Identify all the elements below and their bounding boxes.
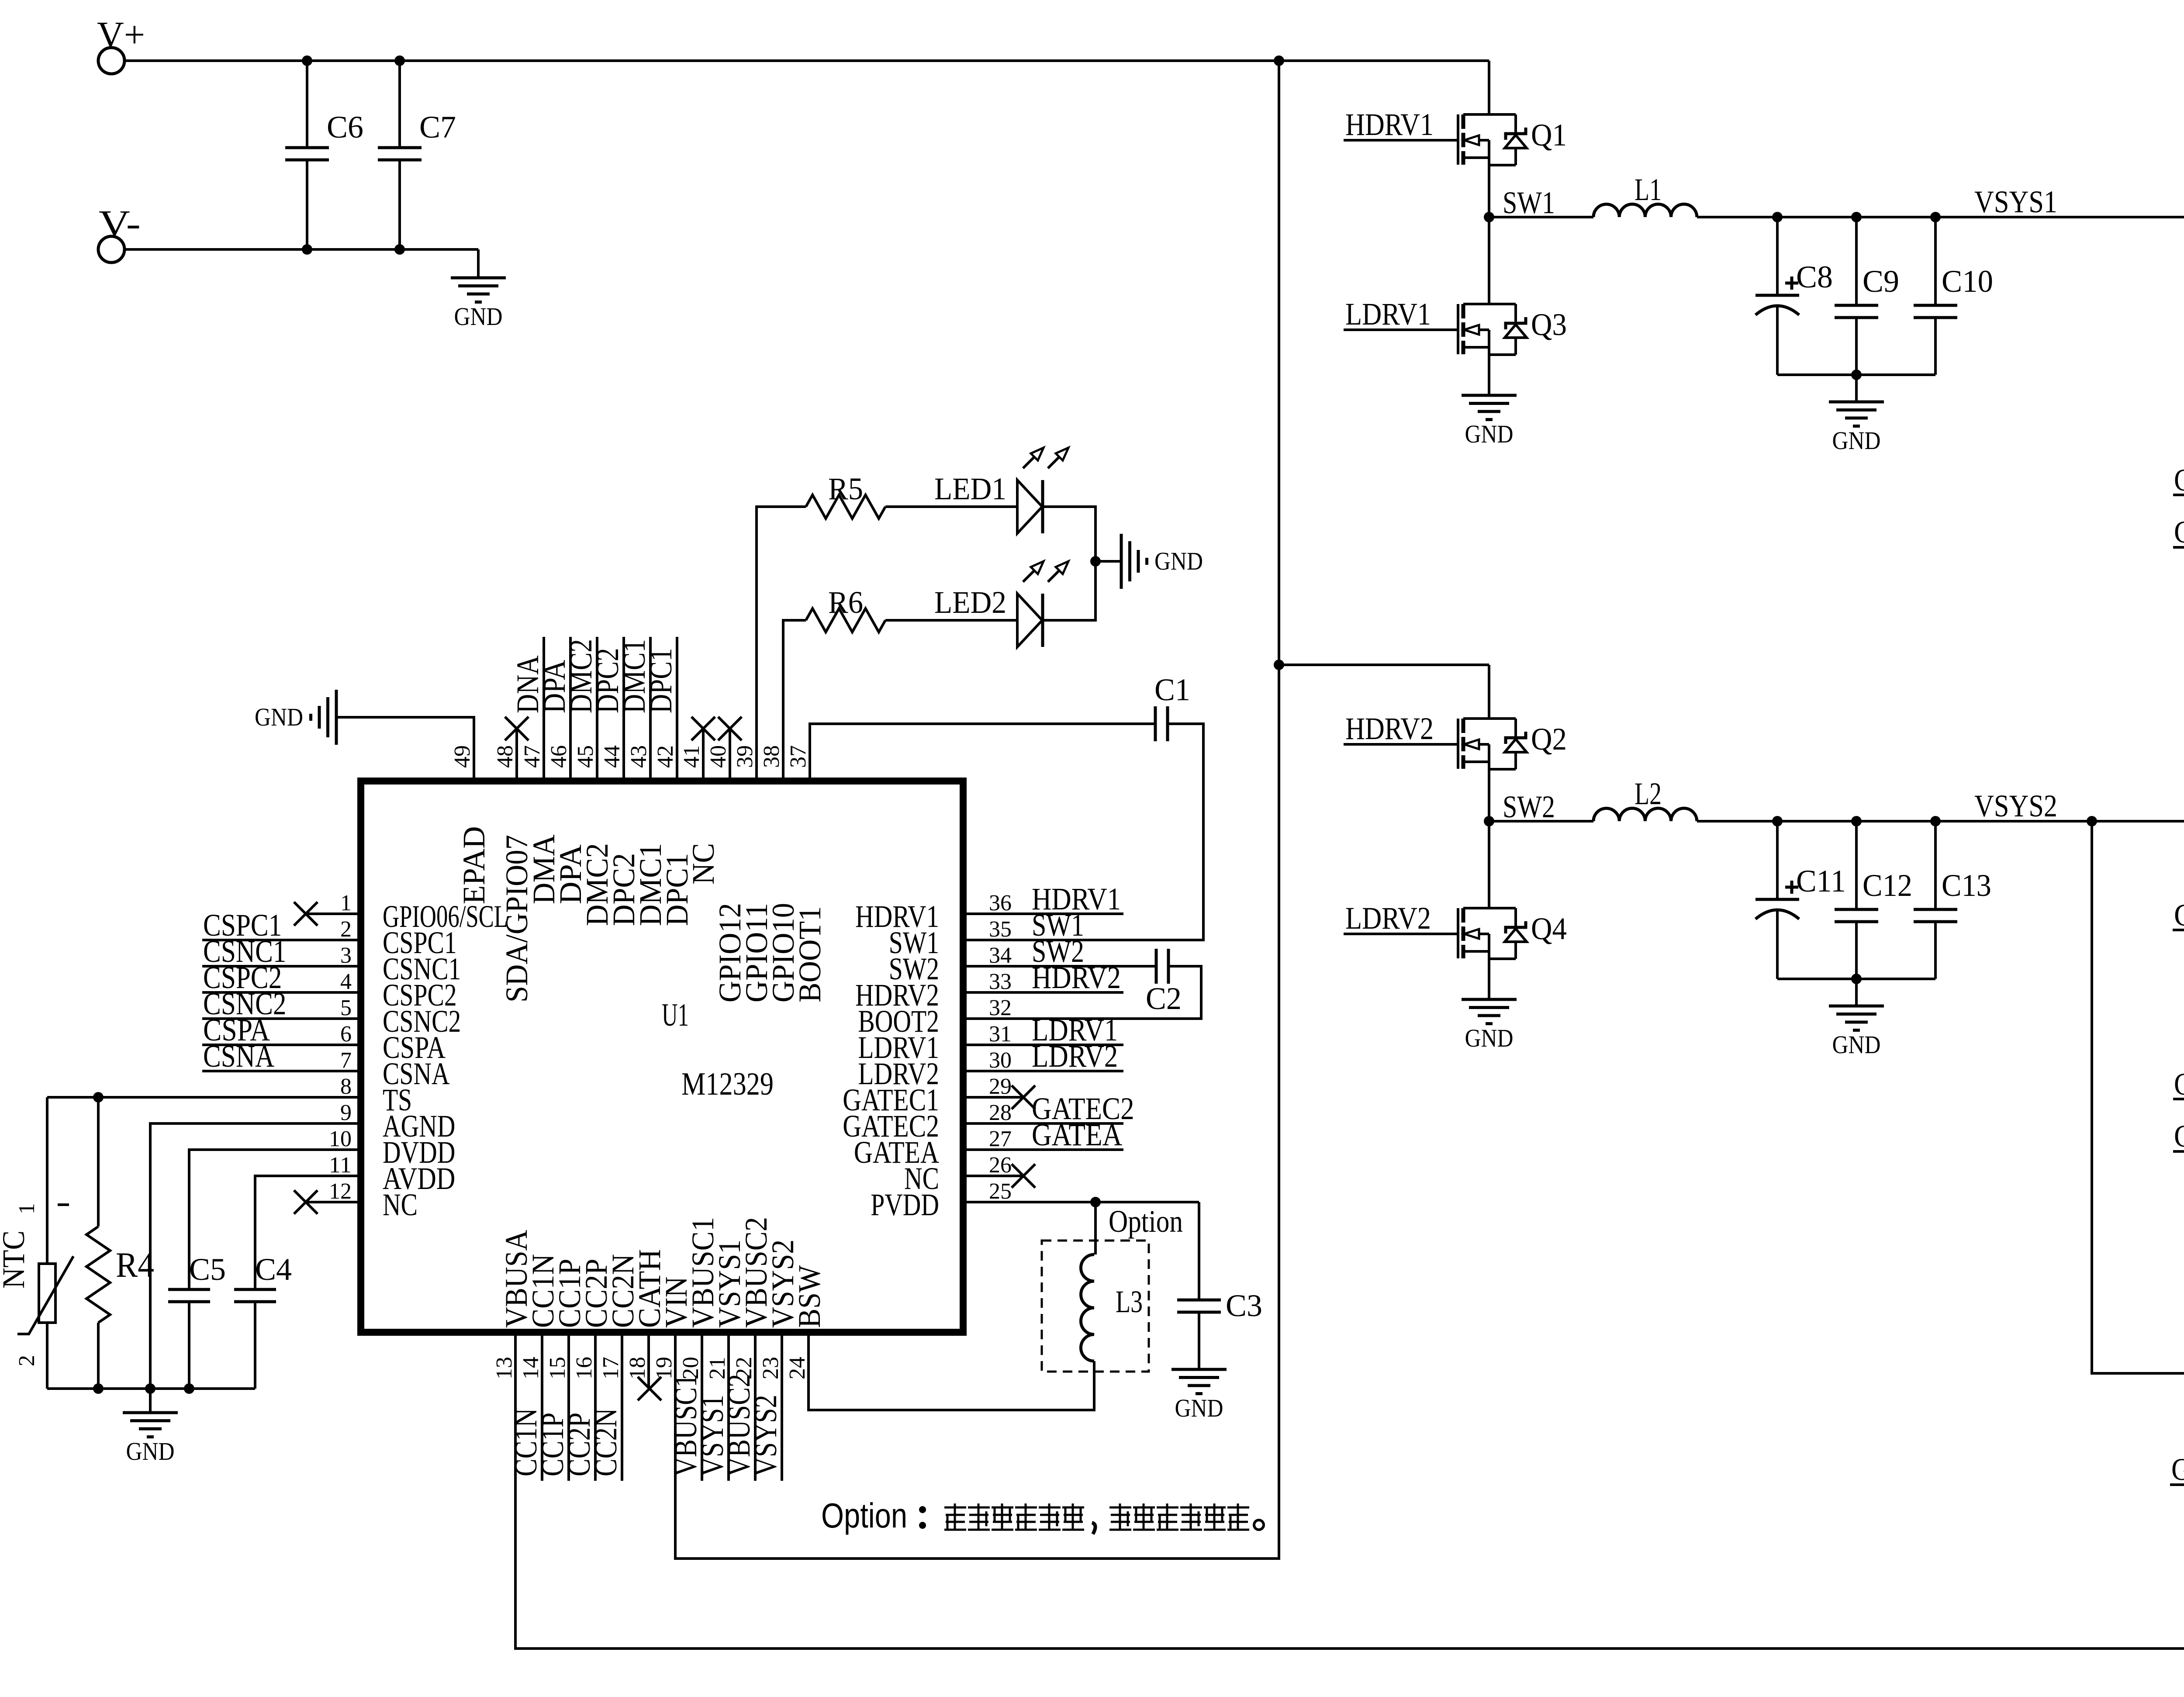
capacitor C12 <box>1855 821 1858 909</box>
svg-text:C4: C4 <box>255 1252 292 1287</box>
svg-text:38: 38 <box>759 745 784 768</box>
net label CSPC1 <box>202 939 361 941</box>
capacitor C5 <box>189 1150 361 1289</box>
wire pin29 stub <box>963 1096 1022 1099</box>
option dashed box <box>1042 1241 1149 1372</box>
svg-text:25: 25 <box>989 1179 1012 1204</box>
svg-text:C1: C1 <box>1154 672 1190 707</box>
wire V+ rail <box>124 59 1279 62</box>
junction <box>394 55 405 66</box>
svg-text:C5: C5 <box>189 1252 226 1287</box>
svg-text:49: 49 <box>450 745 475 768</box>
terminal V- <box>98 236 124 263</box>
ground <box>149 1389 152 1413</box>
svg-text:C9: C9 <box>1863 264 1899 299</box>
svg-text:4: 4 <box>340 969 352 994</box>
LED LED2 <box>1017 594 1042 647</box>
svg-text:GND: GND <box>126 1437 175 1465</box>
svg-text:6: 6 <box>340 1022 352 1047</box>
ground <box>1462 999 1517 1024</box>
svg-text:EPAD: EPAD <box>456 826 491 904</box>
svg-text:VSYS2: VSYS2 <box>1974 788 2057 823</box>
no-connect pin 18 <box>638 1377 661 1400</box>
transistor Q1 <box>1457 114 1459 165</box>
svg-text:CSPC2: CSPC2 <box>2174 1119 2184 1154</box>
svg-text:2: 2 <box>340 917 352 942</box>
svg-text:U1: U1 <box>662 997 689 1033</box>
net label VBUSC1 <box>701 1332 703 1481</box>
svg-text:BOOT1: BOOT1 <box>792 906 827 1002</box>
svg-text:41: 41 <box>679 745 704 768</box>
svg-text:28: 28 <box>989 1100 1012 1125</box>
resistor R6 <box>783 620 806 781</box>
resistor R5 <box>757 507 806 781</box>
svg-text:37: 37 <box>786 745 811 768</box>
net label VBUSC2 <box>754 1332 757 1481</box>
junction <box>1851 212 1862 222</box>
svg-text:17: 17 <box>598 1357 623 1379</box>
svg-text:42: 42 <box>653 745 678 768</box>
net label HDRV2 <box>963 991 1123 994</box>
net label SW2 <box>963 965 1156 968</box>
op-amp U1 IC body M12329 <box>361 781 963 1332</box>
svg-text:LDRV2: LDRV2 <box>1032 1039 1118 1074</box>
svg-text:Option: Option <box>821 1496 907 1535</box>
wire pin12 stub <box>307 1201 361 1203</box>
svg-text:L1: L1 <box>1635 172 1662 207</box>
svg-text:32: 32 <box>989 995 1012 1020</box>
svg-text:47: 47 <box>520 745 545 768</box>
svg-text:CSPC1: CSPC1 <box>2174 515 2184 550</box>
svg-text:5: 5 <box>340 995 352 1020</box>
capacitor C13 <box>1934 821 1937 909</box>
transistor Q4 <box>1457 908 1459 958</box>
svg-text:LDRV1: LDRV1 <box>1345 297 1431 332</box>
net label GATEA <box>963 1148 1123 1151</box>
net label CSPC2 <box>202 991 361 994</box>
transistor Q3 <box>1457 304 1459 354</box>
svg-text:HDRV1: HDRV1 <box>1345 107 1434 142</box>
node SW2 <box>1484 816 1494 826</box>
junction <box>394 244 405 255</box>
svg-text:9: 9 <box>340 1100 352 1125</box>
net label VSYS1 <box>727 1332 730 1481</box>
svg-text:36: 36 <box>989 891 1012 916</box>
no-connect pin 12 <box>294 1190 318 1214</box>
svg-text:44: 44 <box>600 745 625 768</box>
svg-text:NC: NC <box>686 843 721 885</box>
svg-text:15: 15 <box>545 1357 570 1379</box>
svg-text:26: 26 <box>989 1153 1012 1178</box>
transistor Q2 <box>1457 719 1459 769</box>
ground <box>311 690 337 745</box>
junction <box>1851 816 1862 826</box>
wire SW1 to L1 <box>1489 216 1593 218</box>
svg-text:VSYS1: VSYS1 <box>1974 184 2057 219</box>
ground <box>477 249 480 278</box>
wire VSYS1 rail <box>1697 216 2184 218</box>
svg-text:LED2: LED2 <box>934 585 1006 620</box>
svg-text:11: 11 <box>329 1153 352 1178</box>
no-connect pin 41 <box>691 717 715 740</box>
net label LDRV1 <box>1344 328 1458 331</box>
ground <box>1855 375 1858 402</box>
wire pin48 stub <box>515 729 518 781</box>
svg-text:GND: GND <box>1465 420 1514 448</box>
svg-text:CSNC2: CSNC2 <box>2174 1067 2184 1102</box>
net label HDRV1 <box>963 912 1123 915</box>
net label CSNC2 <box>2173 1019 2184 1099</box>
no-connect pin 26 <box>1012 1164 1035 1188</box>
svg-text:1: 1 <box>14 1203 39 1214</box>
net label CSNC1 <box>202 965 361 968</box>
svg-text:C7: C7 <box>419 110 456 145</box>
net label GATEC2 <box>963 1122 1123 1125</box>
capacitor C11 <box>1776 821 1779 899</box>
svg-text:29: 29 <box>989 1074 1012 1099</box>
svg-text:1: 1 <box>340 891 352 916</box>
svg-text:R6: R6 <box>828 585 863 620</box>
svg-text:23: 23 <box>758 1357 783 1379</box>
svg-text:CSNA: CSNA <box>203 1039 274 1074</box>
inductor L3 <box>1081 1255 1094 1361</box>
capacitor C3 <box>1198 1202 1200 1300</box>
LED LED1 <box>1017 480 1042 533</box>
svg-text:GND: GND <box>1465 1024 1514 1052</box>
net label SW1 <box>963 939 1203 941</box>
svg-text:DPC1: DPC1 <box>643 648 678 713</box>
wire V- rail <box>124 248 478 251</box>
junction <box>302 244 312 255</box>
svg-text:C8: C8 <box>1796 259 1833 294</box>
junction <box>1090 1197 1101 1207</box>
svg-text:C3: C3 <box>1226 1288 1262 1323</box>
svg-text:PVDD: PVDD <box>871 1187 939 1222</box>
svg-text:Q1: Q1 <box>1531 118 1567 152</box>
thermistor NTC <box>46 1097 48 1264</box>
svg-text:48: 48 <box>493 745 518 768</box>
svg-text:L2: L2 <box>1635 776 1662 811</box>
svg-text:14: 14 <box>518 1357 543 1379</box>
svg-text:HDRV2: HDRV2 <box>1345 711 1434 746</box>
svg-text:SW1: SW1 <box>1503 185 1555 220</box>
wire pin26 stub <box>963 1175 1022 1177</box>
svg-text:C11: C11 <box>1796 864 1846 899</box>
svg-text:BSW: BSW <box>792 1265 827 1328</box>
svg-text:CSNC1: CSNC1 <box>2174 463 2184 498</box>
svg-text:C6: C6 <box>327 110 363 145</box>
net label CSPA <box>202 1044 361 1046</box>
svg-text:13: 13 <box>492 1357 517 1379</box>
svg-text:GND: GND <box>1832 426 1881 455</box>
junction <box>1930 816 1941 826</box>
junction <box>93 1092 104 1103</box>
junction <box>1851 370 1862 380</box>
wire analog bottom rail <box>47 1387 255 1390</box>
svg-text:C10: C10 <box>1942 264 1993 299</box>
inductor L1 <box>1593 204 1697 217</box>
svg-text:Option: Option <box>1109 1204 1183 1239</box>
wire Q1 drain rail <box>1279 59 1489 62</box>
no-connect pin 29 <box>1012 1085 1035 1109</box>
net label DMC2 <box>596 637 598 781</box>
svg-text:8: 8 <box>340 1074 352 1099</box>
svg-text:24: 24 <box>785 1357 810 1379</box>
capacitor C2 <box>963 965 1156 968</box>
svg-text:31: 31 <box>989 1022 1012 1047</box>
no-connect pin 1 <box>294 902 318 926</box>
svg-text:C13: C13 <box>1942 868 1991 903</box>
capacitor C4 <box>255 1176 361 1289</box>
svg-text:V+: V+ <box>97 14 145 55</box>
svg-text:2: 2 <box>14 1355 39 1366</box>
capacitor C8 <box>1776 217 1779 295</box>
junction <box>1772 816 1783 826</box>
junction <box>1851 974 1862 984</box>
inductor L2 <box>1593 808 1697 821</box>
capacitor C7 <box>398 61 401 148</box>
ground <box>1095 560 1121 563</box>
svg-text:Q3: Q3 <box>1531 307 1567 342</box>
svg-text:LED1: LED1 <box>934 471 1006 506</box>
wire LED2 cathode <box>1043 561 1095 620</box>
svg-text:V-: V- <box>99 202 141 244</box>
wire PVDD to option <box>1094 1202 1097 1255</box>
net label DPC1 <box>676 637 678 781</box>
svg-text:43: 43 <box>626 745 651 768</box>
wire AGND net <box>150 1123 361 1389</box>
junction <box>1090 556 1101 567</box>
svg-text:33: 33 <box>989 969 1012 994</box>
wire pin25 PVDD <box>963 1201 1199 1203</box>
svg-text:30: 30 <box>989 1048 1012 1073</box>
wire Q2 drain rail <box>1279 664 1489 666</box>
net label CC1P <box>567 1332 570 1481</box>
wire capacitor bottom rail 2 <box>1777 978 1935 980</box>
wire VSYS2 rail <box>1697 820 2184 823</box>
svg-text:CC2N: CC2N <box>588 1408 623 1476</box>
no-connect pin 48 <box>505 717 529 740</box>
wire pin40 stub <box>729 729 731 781</box>
svg-text:45: 45 <box>573 745 598 768</box>
net label GATEC2 <box>2173 929 2184 931</box>
net label DPC2 <box>622 637 625 781</box>
ground <box>1171 1369 1227 1394</box>
svg-text:VSYS2: VSYS2 <box>748 1395 783 1476</box>
wire pin41 stub <box>702 729 705 781</box>
net label CSNA <box>202 1070 361 1072</box>
net label CC1N <box>541 1332 543 1481</box>
svg-text:39: 39 <box>733 745 757 768</box>
svg-text:C12: C12 <box>1863 868 1912 903</box>
junction <box>145 1383 156 1394</box>
net label LDRV2 <box>963 1070 1123 1072</box>
svg-text:7: 7 <box>340 1048 352 1073</box>
terminal V+ <box>98 48 124 74</box>
net label CSPC1 <box>2173 415 2184 547</box>
svg-text:3: 3 <box>340 943 352 968</box>
node SW1 <box>1484 212 1494 222</box>
svg-text:35: 35 <box>989 917 1012 942</box>
svg-text:GATEA: GATEA <box>1032 1117 1122 1152</box>
net label CC2P <box>594 1332 597 1481</box>
net label LDRV2 <box>1344 933 1458 935</box>
svg-text:GND: GND <box>1832 1030 1881 1059</box>
net label CC2N <box>621 1332 623 1481</box>
svg-text:16: 16 <box>572 1357 597 1379</box>
wire capacitor bottom rail 1 <box>1777 373 1935 376</box>
wire LED1 cathode <box>1043 507 1095 561</box>
svg-text:GATEC2: GATEC2 <box>2174 898 2184 933</box>
svg-text:SW2: SW2 <box>1503 789 1555 824</box>
svg-text:10: 10 <box>329 1127 352 1151</box>
net label VSYS2 <box>781 1332 783 1481</box>
svg-text:GND: GND <box>454 302 503 331</box>
resistor R4 <box>97 1097 100 1227</box>
svg-text:M12329: M12329 <box>681 1066 774 1102</box>
svg-text:GND: GND <box>1175 1394 1223 1422</box>
no-connect pin 40 <box>718 717 742 740</box>
junction <box>93 1383 104 1394</box>
capacitor C1 <box>810 724 1155 781</box>
wire pin1 stub <box>307 912 361 915</box>
svg-text:34: 34 <box>989 943 1012 968</box>
svg-text:Q4: Q4 <box>1531 911 1567 946</box>
svg-text:NTC: NTC <box>0 1230 31 1289</box>
capacitor C9 <box>1855 217 1858 305</box>
junction <box>184 1383 194 1394</box>
net label CSNC1 <box>2173 415 2184 495</box>
svg-text:12: 12 <box>329 1179 352 1204</box>
junction <box>1274 55 1284 66</box>
svg-text:LDRV2: LDRV2 <box>1345 901 1431 936</box>
svg-text:46: 46 <box>546 745 571 768</box>
net label HDRV2 <box>1344 743 1458 746</box>
junction <box>1930 212 1941 222</box>
svg-text:GND: GND <box>255 703 303 731</box>
junction <box>1772 212 1783 222</box>
svg-text:18: 18 <box>625 1357 650 1379</box>
svg-text:27: 27 <box>989 1127 1012 1151</box>
net label DNA <box>543 637 545 781</box>
net label CSNC2 <box>202 1017 361 1020</box>
svg-text:40: 40 <box>706 745 731 768</box>
ground <box>1462 395 1517 420</box>
svg-text:GATEA: GATEA <box>2171 1452 2184 1487</box>
wire TS net <box>47 1096 361 1099</box>
junction <box>1274 660 1284 670</box>
wire SW2 to L2 <box>1489 820 1593 823</box>
junction VSYS2 branch <box>2087 816 2097 826</box>
capacitor C10 <box>1934 217 1937 305</box>
net label GATEA <box>2170 1483 2184 1486</box>
svg-text:R4: R4 <box>116 1245 154 1285</box>
svg-text:C2: C2 <box>1146 981 1182 1016</box>
svg-text:Q2: Q2 <box>1531 722 1567 757</box>
wire pin18 stub <box>647 1332 650 1387</box>
svg-text:GND: GND <box>1154 547 1203 575</box>
svg-text:L3: L3 <box>1116 1284 1143 1319</box>
svg-text:SW2: SW2 <box>1032 934 1084 969</box>
junction <box>302 55 312 66</box>
net label DPA <box>569 637 572 781</box>
wire VBUSA bottom rail <box>515 1332 2184 1649</box>
net label DMC1 <box>649 637 652 781</box>
net label CSPC2 <box>2173 1019 2184 1151</box>
net label HDRV1 <box>1344 139 1458 142</box>
wire V+ vertical to VIN <box>675 61 1279 1559</box>
ground <box>1855 979 1858 1006</box>
svg-text:R5: R5 <box>828 471 863 506</box>
capacitor C6 <box>306 61 308 148</box>
wire EPAD to ground <box>336 717 474 781</box>
net label LDRV1 <box>963 1044 1123 1046</box>
svg-text:NC: NC <box>383 1187 418 1222</box>
wire VSYS2 branch down to Q6 <box>2092 821 2184 1373</box>
